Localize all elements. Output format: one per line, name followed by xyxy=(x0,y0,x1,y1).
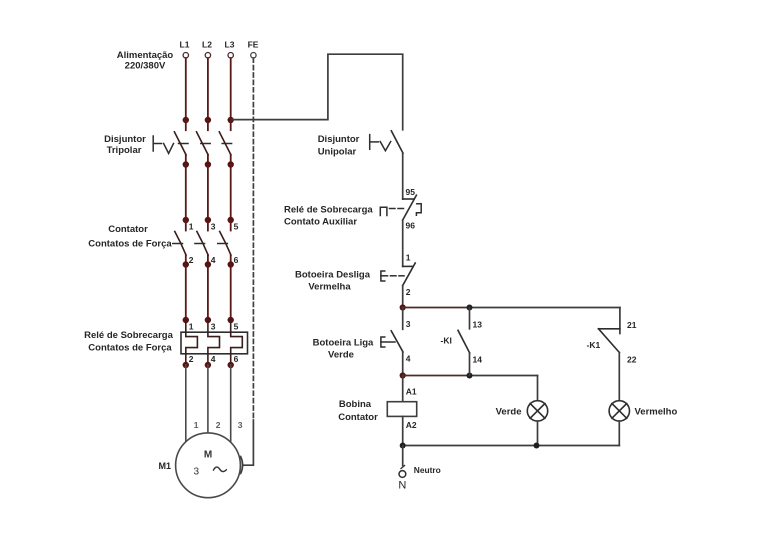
wire PE dashed xyxy=(252,58,254,420)
svg-text:M: M xyxy=(204,450,212,461)
svg-text:Unipolar: Unipolar xyxy=(318,147,357,158)
svg-text:Contatos de Força: Contatos de Força xyxy=(88,239,172,250)
svg-text:L2: L2 xyxy=(202,40,212,50)
label Botoeira Liga Verde xyxy=(313,338,374,361)
node below breaker 3 xyxy=(228,161,234,167)
svg-text:Relé de Sobrecarga: Relé de Sobrecarga xyxy=(84,330,173,341)
wire L3 to overload xyxy=(230,265,232,321)
svg-text:Botoeira Liga: Botoeira Liga xyxy=(313,338,374,349)
svg-text:4: 4 xyxy=(211,354,216,364)
breaker Q2 contact xyxy=(391,131,403,153)
svg-text:Vermelho: Vermelho xyxy=(635,407,678,418)
terminal FE xyxy=(248,40,259,58)
svg-text:Bobina: Bobina xyxy=(339,399,372,410)
breaker Q1 actuator bar xyxy=(152,136,154,151)
node L3 (control tap) xyxy=(228,117,234,123)
overload F1 element 1 (contacts 1-2) xyxy=(183,317,189,323)
wire node to K1-21 branch xyxy=(403,307,470,309)
overload F1 element 3 (contacts 5-6) xyxy=(228,317,234,323)
wire 2 to node xyxy=(402,286,404,308)
terminal L3 xyxy=(225,40,235,58)
contactor K1 pole 2 (contacts 3-4) xyxy=(205,217,211,223)
svg-text:A2: A2 xyxy=(406,420,417,430)
svg-text:Verde: Verde xyxy=(328,350,354,361)
motor sine symbol xyxy=(214,467,227,471)
wire L2 to overload xyxy=(207,265,209,321)
contactor K1 pole 1 (contacts 1-2) xyxy=(183,217,189,223)
breaker Q2 actuator xyxy=(369,135,371,150)
svg-text:1: 1 xyxy=(189,322,194,332)
svg-text:22: 22 xyxy=(627,355,637,365)
PE motor-frame clamp xyxy=(241,457,243,474)
contact K1 21-22 (NC for red lamp) xyxy=(619,308,621,334)
node seal-in branch bottom xyxy=(467,373,473,379)
breaker Q1 actuator V xyxy=(164,144,174,154)
svg-text:FE: FE xyxy=(248,40,259,50)
svg-text:2: 2 xyxy=(216,420,221,430)
label Alimentação 220/380V xyxy=(117,50,174,72)
svg-text:A1: A1 xyxy=(406,387,417,397)
svg-text:Disjuntor: Disjuntor xyxy=(104,134,146,145)
svg-text:5: 5 xyxy=(234,222,239,232)
svg-text:3: 3 xyxy=(406,319,411,329)
svg-text:Contatos de Força: Contatos de Força xyxy=(88,343,172,354)
svg-text:Contato Auxiliar: Contato Auxiliar xyxy=(284,217,357,228)
svg-text:2: 2 xyxy=(406,287,411,297)
wire L3 to contactor xyxy=(230,165,232,221)
svg-text:6: 6 xyxy=(234,255,239,265)
wire L1 to contactor xyxy=(185,165,187,221)
svg-text:3: 3 xyxy=(211,322,216,332)
label Disjuntor Unipolar xyxy=(318,134,360,158)
terminal L1 xyxy=(180,40,190,58)
wire node to green lamp xyxy=(403,375,470,377)
motor M1 circle xyxy=(176,433,241,498)
svg-text:14: 14 xyxy=(473,355,483,365)
breaker pole 1 xyxy=(185,120,187,130)
pushbutton S0 actuator xyxy=(381,271,385,281)
svg-text:4: 4 xyxy=(211,255,216,265)
svg-text:Verde: Verde xyxy=(496,407,522,418)
node L2 xyxy=(205,117,211,123)
contact K1 13-14 (seal-in) xyxy=(469,308,471,329)
terminal L2 xyxy=(202,40,212,58)
svg-text:1: 1 xyxy=(406,253,411,263)
svg-text:Relé de Sobrecarga: Relé de Sobrecarga xyxy=(284,205,373,216)
svg-text:220/380V: 220/380V xyxy=(125,61,166,72)
svg-text:Disjuntor: Disjuntor xyxy=(318,134,360,145)
label Relé de Sobrecarga Contatos de Força xyxy=(84,330,173,354)
wire control tap from L3 xyxy=(231,54,403,130)
contactor K1 pole 3 (contacts 5-6) xyxy=(228,217,234,223)
svg-text:-KI: -KI xyxy=(441,336,452,346)
label Botoeira Desliga Vermelha xyxy=(295,270,371,293)
overload aux trip symbol xyxy=(380,207,387,215)
wire 96 to stop button xyxy=(402,220,404,266)
svg-text:Tripolar: Tripolar xyxy=(107,145,142,156)
svg-text:N: N xyxy=(398,480,406,492)
wire L1 top xyxy=(185,58,187,120)
pushbutton S1 actuator xyxy=(381,337,385,347)
neutral terminal N xyxy=(402,446,404,466)
overload relay F1 box xyxy=(181,332,248,354)
svg-text:-K1: -K1 xyxy=(587,340,601,350)
svg-text:1: 1 xyxy=(189,222,194,232)
svg-text:Alimentação: Alimentação xyxy=(117,50,174,61)
node neutral at coil xyxy=(400,443,406,449)
breaker Q1 linkage dashes xyxy=(179,143,189,145)
svg-text:96: 96 xyxy=(406,221,416,231)
neutral bus wire xyxy=(403,445,620,447)
svg-text:5: 5 xyxy=(234,322,239,332)
svg-text:13: 13 xyxy=(473,320,483,330)
overload F1 element 2 (contacts 3-4) xyxy=(205,317,211,323)
label Disjuntor Tripolar xyxy=(104,134,146,156)
svg-text:3: 3 xyxy=(194,467,200,478)
wire to motor W xyxy=(230,365,232,442)
svg-text:Contator: Contator xyxy=(108,224,148,235)
motor lead labels 1 2 3 xyxy=(194,420,243,430)
node seal-in branch top xyxy=(467,305,473,311)
svg-text:1: 1 xyxy=(194,420,199,430)
svg-text:6: 6 xyxy=(234,354,239,364)
node L1 xyxy=(183,117,189,123)
label Bobina Contator xyxy=(338,399,378,423)
svg-text:2: 2 xyxy=(189,255,194,265)
svg-text:2: 2 xyxy=(189,354,194,364)
svg-text:L1: L1 xyxy=(180,40,190,50)
svg-text:21: 21 xyxy=(627,320,637,330)
svg-text:Vermelha: Vermelha xyxy=(308,282,351,293)
node neutral at green lamp xyxy=(534,443,540,449)
svg-text:95: 95 xyxy=(406,187,416,197)
wire L2 to contactor xyxy=(207,165,209,221)
label Contator Contatos de Força xyxy=(88,224,172,250)
svg-text:L3: L3 xyxy=(225,40,235,50)
svg-text:Contator: Contator xyxy=(338,412,378,423)
svg-text:3: 3 xyxy=(211,222,216,232)
node after stop button xyxy=(400,304,406,310)
label Relé de Sobrecarga Contato Auxiliar xyxy=(284,205,373,228)
breaker pole 2 xyxy=(207,120,209,130)
wire L2 top xyxy=(207,58,209,120)
node below breaker 2 xyxy=(205,161,211,167)
wire 4 to node xyxy=(402,352,404,376)
wire to motor U xyxy=(185,365,187,441)
node after start button xyxy=(400,372,406,378)
svg-text:Botoeira Desliga: Botoeira Desliga xyxy=(295,270,371,281)
overload aux latch hook xyxy=(416,204,421,216)
svg-text:M1: M1 xyxy=(159,461,172,471)
svg-text:Neutro: Neutro xyxy=(414,465,441,475)
wire L1 to overload xyxy=(185,265,187,321)
breaker pole 3 xyxy=(230,120,232,130)
node below breaker 1 xyxy=(183,161,189,167)
svg-text:3: 3 xyxy=(238,420,243,430)
wire L3 top xyxy=(230,58,232,120)
wire to motor V xyxy=(207,365,209,433)
svg-text:4: 4 xyxy=(406,354,411,364)
wire PE lower solid xyxy=(244,420,254,465)
